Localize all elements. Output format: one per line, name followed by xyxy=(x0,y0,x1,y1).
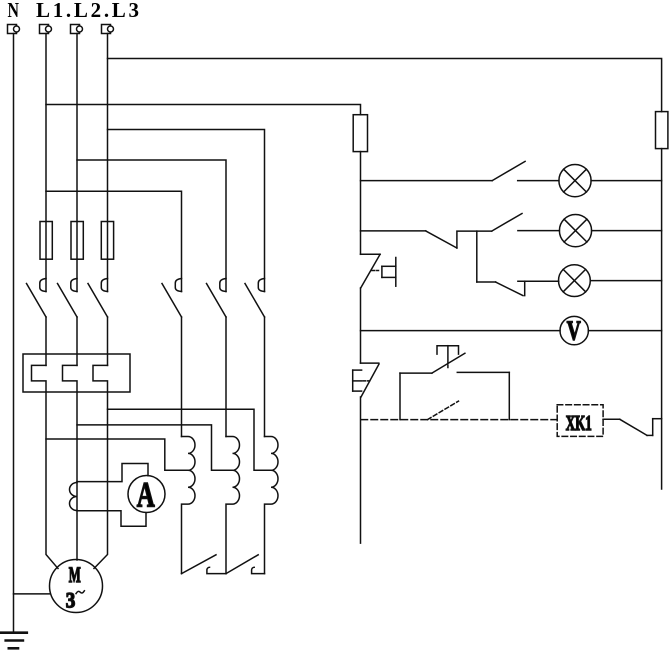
svg-text:L1.L2.L3: L1.L2.L3 xyxy=(36,0,139,22)
svg-text:M: M xyxy=(69,562,81,587)
svg-text:3: 3 xyxy=(66,587,76,612)
svg-text:XK1: XK1 xyxy=(566,411,592,435)
svg-text:A: A xyxy=(137,475,155,515)
svg-text:V: V xyxy=(567,316,581,346)
svg-text:N: N xyxy=(8,0,20,22)
